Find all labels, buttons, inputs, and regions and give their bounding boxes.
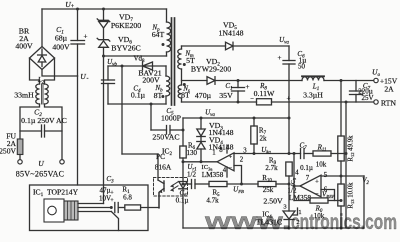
svg-text:25V: 25V: [361, 94, 373, 102]
junction out: [293, 185, 296, 188]
fuse FU 2A 250V: [17, 139, 23, 155]
op-amp IC3b 1/2 LM358: [300, 175, 321, 197]
svg-text:4.7k: 4.7k: [206, 197, 219, 205]
junction divider node: [340, 175, 343, 178]
junction fbrow-LED: [182, 183, 185, 186]
svg-text:+: +: [278, 54, 282, 62]
wire divider B: [345, 102, 347, 228]
capacitor C6 1u 50V: [288, 46, 290, 61]
transformer winding Nm 5T: [181, 46, 183, 49]
svg-text:0.1µ: 0.1µ: [131, 91, 146, 100]
svg-text:68µ: 68µ: [55, 34, 68, 43]
svg-text:50: 50: [298, 63, 306, 71]
junction R9 top: [288, 152, 291, 155]
svg-text:−: −: [229, 165, 232, 171]
svg-text:0.1µ: 0.1µ: [176, 197, 189, 205]
polarity dot Nb: [161, 95, 164, 98]
svg-text:200V: 200V: [142, 76, 160, 85]
wire secondary ground rail: [183, 227, 364, 229]
wire divider A: [340, 81, 342, 137]
junction out-LED: [182, 160, 185, 163]
node Uva rail: [183, 117, 289, 119]
opto phototransistor: [122, 153, 158, 155]
TVS diode VD7 P6KE200: [97, 19, 110, 22]
svg-text:1/2: 1/2: [187, 171, 196, 179]
svg-text:+: +: [84, 33, 88, 41]
svg-text:1N4148: 1N4148: [208, 143, 233, 152]
svg-text:−: −: [250, 96, 254, 103]
optocoupler dashed box: [154, 178, 188, 197]
diode VD4 1N4148: [197, 141, 205, 143]
junction C1 top: [76, 8, 79, 11]
svg-text:+: +: [110, 191, 113, 197]
svg-text:250VAC: 250VAC: [152, 133, 179, 142]
capacitor C3 47u 10V: [114, 203, 116, 213]
svg-text:cntronics.com: cntronics.com: [291, 210, 397, 234]
wire clamp from rail: [103, 9, 105, 20]
resistor R10 25k: [258, 181, 276, 186]
bridge rectifier BR 2A 400V: [30, 47, 55, 70]
inductor L2 33mH common-mode choke: [36, 84, 40, 104]
shunt regulator IC4 TL431C 2.50V: [288, 184, 290, 211]
svg-text:2: 2: [240, 157, 244, 164]
transformer primary Np 64T: [167, 22, 171, 52]
diode VD2 BYW29-200: [207, 77, 215, 85]
wire bridge+ to rail: [41, 9, 43, 47]
svg-text:0.11W: 0.11W: [254, 89, 275, 98]
svg-text:2A: 2A: [384, 85, 394, 94]
svg-text:130: 130: [187, 149, 198, 157]
junction pin2 node: [240, 183, 243, 186]
wire divider tap: [321, 175, 364, 177]
wire Nm to VD5: [182, 45, 226, 47]
output terminal +15V: [374, 78, 378, 82]
svg-text:47µ: 47µ: [99, 187, 110, 195]
svg-text:0.1µ: 0.1µ: [300, 164, 313, 172]
svg-text:400V: 400V: [15, 42, 33, 51]
svg-text:-: -: [87, 76, 89, 82]
capacitor C11 470u 35V: [237, 81, 239, 88]
junction rail-R7: [253, 117, 256, 120]
opto light arrows: [171, 182, 178, 187]
resistor R1 6.8: [125, 205, 141, 210]
polarity dot Ns: [183, 83, 186, 86]
resistor R9 2.7k: [286, 162, 292, 176]
wire U- rail down: [77, 76, 79, 185]
capacitor C1 68u 400V: [77, 9, 79, 41]
wire U- from bridge: [42, 70, 78, 77]
AC input terminal right: [60, 160, 64, 164]
svg-text:1000P: 1000P: [161, 114, 182, 123]
svg-text:10k: 10k: [316, 161, 327, 169]
svg-text:10V: 10V: [99, 195, 111, 203]
svg-text:RTN: RTN: [381, 99, 396, 108]
diode Vd8 BAV21 200V: [142, 62, 144, 70]
wire IC3a out: [183, 161, 217, 163]
pin 4: [226, 167, 228, 177]
junction fb up: [293, 152, 296, 155]
inductor L1 3.3uH: [302, 75, 324, 77]
svg-text:0.1µ 250V AC: 0.1µ 250V AC: [21, 116, 67, 125]
wire Uvb to Nb top: [108, 65, 166, 67]
junction control node: [110, 206, 113, 209]
wire collector from Uvb: [121, 66, 123, 154]
junction C11 bottom: [237, 101, 240, 104]
svg-text:5: 5: [324, 172, 328, 179]
wire choke left down: [20, 104, 40, 139]
svg-text:64T: 64T: [152, 30, 165, 39]
wire bridge AC left to choke: [30, 58, 40, 84]
junction R7 bottom: [253, 152, 256, 155]
resistor R11 10k: [313, 151, 331, 156]
wire feedback R14: [294, 200, 310, 202]
junction RTN drop: [345, 101, 348, 104]
wire top DC+ rail: [42, 8, 167, 10]
svg-text:+: +: [246, 83, 250, 91]
junction rail-C6: [288, 117, 291, 120]
svg-text:8T: 8T: [154, 91, 163, 100]
svg-text:+: +: [315, 179, 319, 186]
capacitor C6b 0.1u: [191, 180, 193, 189]
svg-text:BYV26C: BYV26C: [111, 44, 140, 53]
wire pin6: [321, 190, 335, 201]
svg-text:400V: 400V: [52, 43, 70, 52]
resistor R13 10.0k: [338, 184, 344, 206]
svg-text:2.7k: 2.7k: [265, 164, 278, 172]
junction fb: [340, 199, 343, 202]
svg-text:U: U: [80, 72, 86, 81]
wire Uva to R6: [182, 118, 184, 130]
junction drain tap: [102, 55, 105, 58]
junction clamp top: [102, 8, 105, 11]
svg-text:+: +: [229, 155, 232, 161]
AC input terminal left: [18, 160, 22, 164]
resistor R7 2k: [253, 118, 255, 126]
svg-text:+: +: [110, 198, 113, 204]
TO-220 package: [44, 199, 64, 222]
wire RTN rail: [182, 101, 257, 103]
junction divider bottom: [340, 227, 343, 230]
wire bridge AC right to choke: [45, 58, 55, 84]
svg-text:U: U: [38, 159, 44, 168]
polarity dot Np: [162, 43, 165, 46]
svg-text:P6KE200: P6KE200: [111, 21, 141, 30]
wire clamp to primary: [104, 55, 167, 57]
junction R11 end: [345, 152, 348, 155]
diode VD6 BYV26C: [97, 38, 110, 41]
wire IC3b output: [294, 185, 300, 187]
svg-text:250V: 250V: [0, 147, 17, 156]
diode VD5 1N4148: [226, 42, 234, 50]
svg-text:BYW29-200: BYW29-200: [191, 65, 231, 74]
svg-text:25k: 25k: [263, 186, 274, 194]
junction bias tap: [150, 103, 153, 106]
svg-text:R12 49.9k: R12 49.9k: [348, 135, 355, 162]
junction opto-collector tap: [121, 65, 124, 68]
resistor R5 4.7k: [209, 181, 227, 186]
diode VD3 1N4148: [200, 118, 202, 129]
lead control: [78, 207, 111, 209]
lead drain: [78, 203, 104, 205]
wire L1 to output: [324, 80, 374, 82]
svg-text:4: 4: [295, 170, 299, 177]
junction +15 rail tap: [340, 79, 343, 82]
controller box IC1 TOP214Y: [30, 185, 149, 231]
svg-text:6.8: 6.8: [123, 194, 132, 202]
capacitor C4 0.1u: [107, 66, 109, 80]
junction R9 bottom: [288, 183, 291, 186]
wire pin2: [234, 166, 242, 185]
capacitor C2 0.1u 250VAC X-cap: [20, 130, 42, 132]
svg-text:R13 10.0k: R13 10.0k: [348, 182, 355, 209]
capacitor C5 1000P 250VAC: [150, 104, 152, 130]
wire bias bottom: [108, 103, 166, 105]
svg-text:33mH: 33mH: [14, 91, 34, 100]
svg-text:7: 7: [306, 175, 310, 182]
opto LED: [179, 182, 187, 189]
svg-text:www.: www.: [204, 208, 291, 234]
svg-text:4: 4: [223, 167, 227, 174]
resistor R12 49.9k: [338, 136, 344, 161]
wire drain down: [103, 56, 105, 204]
svg-text:+: +: [287, 95, 291, 103]
resistor R14 10k: [310, 198, 328, 203]
wire fb row: [183, 183, 192, 185]
svg-text:816A: 816A: [155, 163, 172, 172]
pin 8: [226, 145, 228, 153]
junction TL431 anode: [288, 227, 291, 230]
svg-text:3.3µH: 3.3µH: [303, 91, 323, 100]
resistor R6 130: [182, 130, 184, 146]
junction C5-R6: [182, 129, 185, 132]
op-amp IC3a 1/2 LM358: [217, 153, 234, 171]
wire R6 to LED: [182, 158, 184, 182]
svg-text:85V~265VAC: 85V~265VAC: [16, 170, 64, 179]
wire rail to primary top: [166, 9, 168, 22]
wire R1 to opto emitter: [158, 193, 160, 208]
capacitor C7b 0.1u: [300, 149, 302, 159]
resistor R8 0.11W current sense: [257, 99, 272, 105]
transformer secondary Ns 8T: [178, 85, 181, 98]
output terminal RTN: [374, 100, 378, 104]
svg-text:2k: 2k: [260, 135, 268, 143]
polarity dot Nm: [183, 63, 186, 66]
svg-text:TOP214Y: TOP214Y: [47, 188, 79, 197]
junction VD4 out: [200, 160, 203, 163]
junction C11 top: [237, 79, 240, 82]
wire Uka pin3: [234, 153, 301, 155]
wire choke right down: [45, 104, 63, 160]
lead source: [78, 211, 111, 213]
junction rail-VD3: [200, 117, 203, 120]
svg-text:2.50V: 2.50V: [263, 197, 283, 206]
transformer core: [171, 18, 173, 105]
svg-text:470µ: 470µ: [195, 91, 212, 100]
capacitor C7 220u 25V: [355, 81, 357, 92]
svg-text:1N4148: 1N4148: [218, 29, 243, 38]
svg-text:8T: 8T: [181, 91, 190, 100]
wire secondary to VD2: [182, 80, 208, 82]
transformer bias winding Nb 8T: [165, 66, 167, 76]
svg-text:35V: 35V: [219, 91, 233, 100]
svg-text:LM358: LM358: [202, 171, 224, 179]
